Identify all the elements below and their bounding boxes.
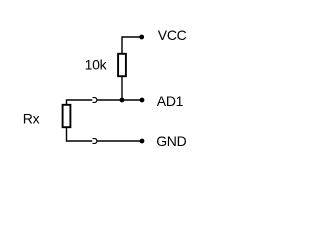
- node GND dot: [140, 139, 145, 144]
- wire resistor bottom to AD1 junction: [121, 77, 123, 100]
- connector socket top: [93, 98, 97, 103]
- resistor R1 10k body: [118, 54, 126, 76]
- wire Rx bottom: [67, 128, 93, 141]
- svg-text:AD1: AD1: [157, 93, 184, 109]
- svg-text:10k: 10k: [85, 57, 108, 73]
- node VCC dot: [139, 35, 144, 40]
- resistor Rx body: [63, 105, 71, 127]
- svg-text:Rx: Rx: [23, 111, 40, 127]
- wire Rx top horizontal: [67, 100, 93, 104]
- wire AD1 horizontal: [97, 99, 142, 101]
- svg-text:VCC: VCC: [158, 27, 187, 43]
- connector socket bottom: [93, 139, 97, 144]
- wire VCC vertical+horizontal: [122, 37, 142, 53]
- wire GND horizontal: [97, 140, 142, 142]
- node AD1 dot: [140, 98, 145, 103]
- svg-text:GND: GND: [156, 133, 186, 149]
- junction dot AD1: [120, 98, 125, 103]
